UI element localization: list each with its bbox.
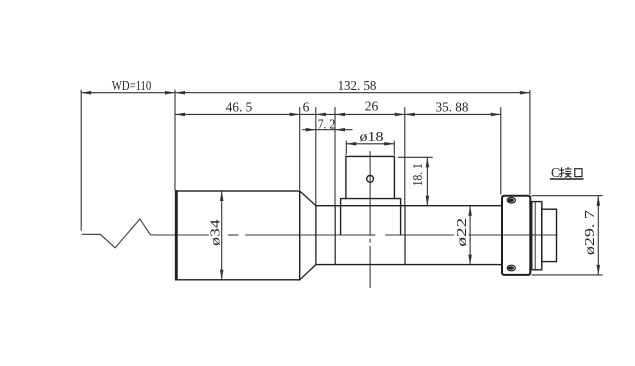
extension line flange front: [500, 107, 502, 195]
arrow 26 right / 35.88 left a: [395, 113, 405, 117]
white boxes under rotated texts: [209, 217, 468, 248]
svg-text:35. 88: 35. 88: [436, 100, 469, 115]
extension line barrel rear: [299, 107, 301, 190]
cone top edge: [300, 191, 316, 206]
arrowheads: [81, 91, 600, 280]
svg-text:132. 58: 132. 58: [338, 78, 377, 93]
arrow 18.1 bottom: [426, 196, 430, 206]
arrow phi18 right: [384, 142, 394, 146]
arrow 132.58 left: [175, 91, 185, 95]
extension line phi18 left: [345, 141, 347, 155]
extension line 18.1 top: [398, 156, 433, 158]
seam 2: [404, 206, 406, 265]
arrow 7.2 right outside: [335, 128, 345, 132]
C-mount flange: [502, 196, 530, 275]
extension line phi29.7 bottom: [532, 274, 603, 276]
svg-text:6: 6: [303, 100, 310, 115]
arrow WD left: [81, 91, 91, 95]
svg-text:26: 26: [365, 99, 379, 114]
extension line phi29.7 top: [532, 195, 603, 197]
dimension 7.2 line: [302, 129, 352, 131]
dimension phi34 line: [221, 191, 223, 280]
dimension chain line 46.5 / 6 / 26 / 35.88: [175, 113, 501, 115]
object plane line: [80, 90, 82, 231]
svg-text:46. 5: 46. 5: [226, 100, 253, 115]
extension line cone end: [315, 107, 317, 205]
extension line front face: [174, 90, 176, 191]
extension line flange rear: [529, 90, 531, 195]
arrow 46.5 right / 6 left: [290, 113, 300, 117]
arrow phi22 bottom: [468, 255, 472, 265]
extension line seam 1: [334, 107, 336, 205]
front barrel: [176, 191, 300, 280]
hanzi jie (interface): [559, 167, 572, 177]
svg-text:18. 1: 18. 1: [410, 163, 425, 186]
port cylinder phi18: [346, 156, 395, 198]
screw slots: [508, 198, 514, 269]
arrow 26 left: [335, 113, 345, 117]
dimension phi22 line: [469, 206, 471, 265]
front face thick edge: [175, 190, 178, 280]
rear pilot cylinder: [542, 209, 557, 261]
arrow 35.88 right: [491, 113, 501, 117]
screw bottom outline: [507, 265, 515, 271]
dimension 18.1 line: [426, 157, 428, 205]
svg-text:C: C: [551, 165, 560, 180]
svg-text:ø18: ø18: [360, 129, 384, 144]
dimension phi18 line: [346, 143, 394, 145]
arrow 18.1 top: [426, 157, 430, 167]
thread relief ring: [532, 202, 542, 270]
svg-text:WD=110: WD=110: [112, 78, 152, 93]
cone end face: [315, 206, 317, 265]
dimension WD=110 line: [81, 92, 175, 94]
svg-text:ø29. 7: ø29. 7: [582, 210, 597, 255]
arrow 7.2 left outside: [306, 128, 316, 132]
svg-text:ø34: ø34: [207, 219, 222, 246]
extension line phi18 right: [393, 141, 395, 155]
extension line seam 2: [404, 107, 406, 205]
cone bottom edge: [300, 265, 316, 280]
tube bottom: [316, 264, 502, 266]
port vertical centerline: [369, 151, 371, 288]
arrow 35.88 left b: [405, 113, 415, 117]
dimension 132.58 line: [175, 92, 530, 94]
svg-text:ø22: ø22: [454, 218, 469, 247]
arrow 132.58 right: [520, 91, 530, 95]
arrow 6 right outside: [316, 113, 326, 117]
arrow phi29.7 top: [597, 196, 601, 206]
seam 1: [334, 206, 336, 265]
arrow phi29.7 bottom: [597, 265, 601, 275]
arrow 46.5 left: [175, 113, 185, 117]
svg-text:7. 2: 7. 2: [318, 116, 336, 131]
arrow phi34 bottom: [220, 270, 224, 280]
wire zigzag break to lens front: [82, 219, 157, 248]
screw bottom slot: [508, 266, 514, 270]
port setscrew circle: [367, 175, 374, 182]
screw top slot: [508, 198, 514, 202]
lens body outlines: [176, 156, 557, 280]
optical axis centerline horizontal: [156, 234, 558, 236]
tube top: [316, 205, 502, 207]
ring inner line: [534, 202, 536, 270]
arrow phi22 top: [468, 206, 472, 216]
arrow phi34 top: [220, 191, 224, 201]
arrow phi18 left: [346, 142, 356, 146]
arrow WD right: [165, 91, 175, 95]
hanzi kou (port): [575, 169, 582, 177]
label underline: [550, 178, 584, 180]
screw top outline: [507, 197, 515, 203]
port flange: [341, 199, 401, 236]
dimension phi29.7 line: [597, 196, 599, 275]
